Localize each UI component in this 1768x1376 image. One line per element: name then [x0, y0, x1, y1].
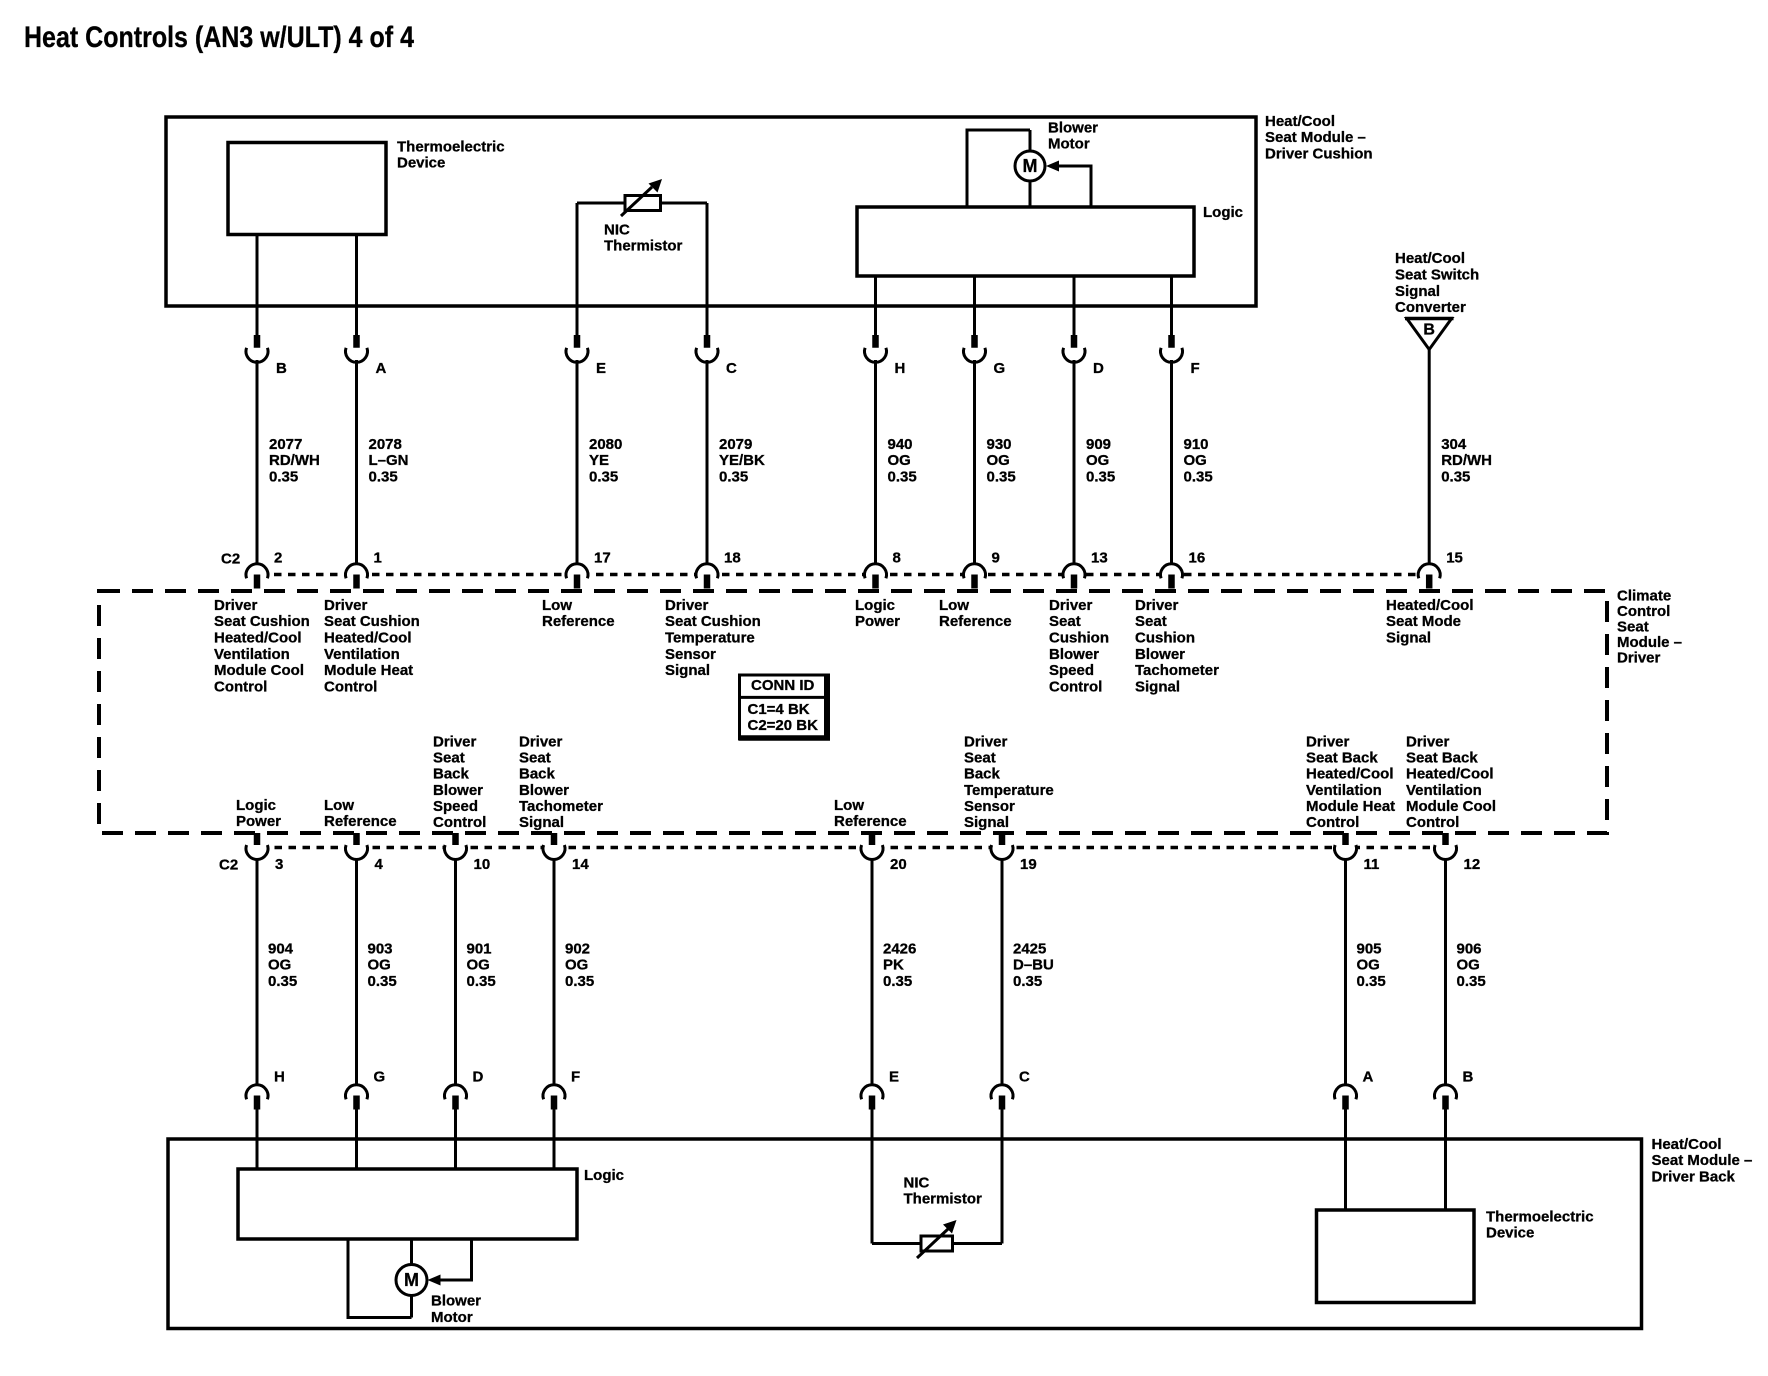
wire 2426 PK 0.35 — [871, 859, 874, 1086]
svg-text:Speed: Speed — [1049, 662, 1094, 679]
net label: Driver Seat Cushion Blower Speed Control — [1049, 597, 1109, 696]
svg-text:0.35: 0.35 — [1457, 973, 1486, 990]
svg-text:OG: OG — [467, 957, 490, 974]
net label: Driver Seat Back Temperature Sensor Signal — [964, 733, 1054, 831]
connector C2 cavity 8 (top row) — [865, 564, 887, 589]
net label: Driver Seat Back Blower Tachometer Signal — [519, 733, 603, 831]
svg-text:Thermistor: Thermistor — [904, 1191, 983, 1208]
svg-text:YE/BK: YE/BK — [719, 452, 765, 469]
svg-text:20: 20 — [890, 856, 907, 873]
wire 2080 YE 0.35 — [576, 360, 579, 565]
pin number 13 — [1091, 549, 1108, 566]
svg-text:C2=20 BK: C2=20 BK — [748, 717, 819, 734]
value label 940 OG 0.35 — [888, 436, 917, 486]
svg-text:0.35: 0.35 — [368, 973, 397, 990]
value label 304 RD/WH 0.35 — [1441, 436, 1492, 486]
svg-text:Temperature: Temperature — [964, 782, 1054, 799]
svg-text:0.35: 0.35 — [987, 469, 1016, 486]
wire TE1 pin B lead — [256, 234, 259, 336]
connector designator C2 (bottom row) — [219, 856, 238, 873]
svg-text:Low: Low — [939, 597, 969, 614]
connector C2 cavity 12 (bottom row) — [1435, 833, 1457, 859]
blower motor B1 symbol M — [1015, 151, 1045, 181]
module: Heat/Cool Seat Module - Driver Cushion (outline) — [166, 117, 1256, 306]
svg-text:OG: OG — [268, 957, 291, 974]
label: Climate Control Seat Module - Driver — [1617, 587, 1682, 666]
inline connector, pin C (driver back module) — [991, 1085, 1013, 1110]
connector C2 cavity 10 (bottom row) — [445, 833, 467, 859]
value label 930 OG 0.35 — [987, 436, 1016, 486]
svg-text:Control: Control — [214, 678, 267, 695]
svg-text:NIC: NIC — [604, 221, 630, 238]
svg-text:Heated/Cool: Heated/Cool — [1406, 766, 1494, 783]
svg-text:Control: Control — [433, 814, 486, 831]
svg-text:Blower: Blower — [519, 782, 569, 799]
svg-text:Heat/Cool: Heat/Cool — [1652, 1136, 1722, 1153]
svg-text:15: 15 — [1446, 549, 1463, 566]
pin number 4 — [375, 856, 384, 873]
inline connector, pin F (cushion module) — [1161, 335, 1183, 362]
svg-text:CONN ID: CONN ID — [751, 677, 815, 694]
svg-text:2426: 2426 — [883, 940, 916, 957]
net label: Low Reference — [324, 797, 397, 830]
svg-text:H: H — [895, 360, 906, 377]
svg-text:2079: 2079 — [719, 436, 752, 453]
connector C2 cavity 19 (bottom row) — [991, 833, 1013, 859]
svg-text:C: C — [1019, 1068, 1030, 1085]
connector C2 cavity 3 (bottom row) — [246, 833, 268, 859]
svg-text:Sensor: Sensor — [964, 798, 1015, 815]
svg-text:OG: OG — [1086, 452, 1109, 469]
svg-text:H: H — [274, 1068, 285, 1085]
svg-text:Control: Control — [1049, 678, 1102, 695]
svg-text:OG: OG — [888, 452, 911, 469]
svg-text:0.35: 0.35 — [719, 469, 748, 486]
net label: Low Reference — [939, 597, 1012, 630]
svg-text:RD/WH: RD/WH — [1441, 452, 1492, 469]
wire 2078 L–GN 0.35 — [355, 360, 358, 565]
svg-text:Temperature: Temperature — [665, 630, 755, 647]
wire pin G to logic U2 — [355, 1109, 358, 1170]
wire 2077 RD/WH 0.35 — [256, 360, 259, 565]
wire 909 OG 0.35 — [1073, 360, 1076, 565]
wire U1 pin H lead — [874, 276, 877, 336]
svg-text:14: 14 — [572, 856, 589, 873]
svg-text:Signal: Signal — [665, 662, 710, 679]
net label: Driver Seat Cushion Temperature Sensor Signal — [665, 597, 761, 679]
pin label G — [374, 1068, 386, 1085]
svg-text:B: B — [1423, 322, 1435, 339]
pin number 2 — [274, 549, 282, 566]
value label 901 OG 0.35 — [467, 940, 496, 990]
pin label D — [1093, 360, 1104, 377]
svg-text:Seat Module –: Seat Module – — [1265, 129, 1366, 146]
connector C2 cavity 9 (top row) — [964, 564, 986, 589]
pin label F — [571, 1068, 580, 1085]
svg-text:902: 902 — [565, 940, 590, 957]
svg-text:904: 904 — [268, 940, 294, 957]
pin label A — [1363, 1068, 1374, 1085]
svg-text:Seat Cushion: Seat Cushion — [665, 613, 761, 630]
svg-text:Thermistor: Thermistor — [604, 238, 683, 255]
svg-text:Signal: Signal — [964, 814, 1009, 831]
svg-text:Logic: Logic — [236, 797, 276, 814]
label: Logic (bottom) — [584, 1167, 624, 1184]
svg-text:11: 11 — [1364, 856, 1380, 873]
svg-text:Seat: Seat — [1049, 613, 1081, 630]
svg-text:Motor: Motor — [1048, 136, 1090, 153]
connector C2 cavity 2 (top row) — [246, 564, 268, 589]
svg-text:Logic: Logic — [584, 1167, 624, 1184]
module: Climate Control Seat Module - Driver (dashed outline) — [99, 591, 1607, 833]
pin label H — [274, 1068, 285, 1085]
connector C2 cavity 11 (bottom row) — [1335, 833, 1357, 859]
svg-text:Seat Back: Seat Back — [1306, 749, 1378, 766]
module: Heat/Cool Seat Module - Driver Back (outline) — [168, 1139, 1642, 1329]
svg-text:0.35: 0.35 — [1441, 469, 1470, 486]
svg-text:C: C — [726, 360, 737, 377]
svg-text:PK: PK — [883, 957, 904, 974]
svg-text:E: E — [889, 1068, 899, 1085]
NIC thermistor RT1 arrow — [621, 179, 662, 216]
svg-text:D: D — [473, 1068, 484, 1085]
svg-text:Seat: Seat — [964, 749, 996, 766]
CONN ID table — [739, 674, 830, 741]
svg-text:Driver: Driver — [433, 733, 477, 750]
inline connector, pin A (driver back module) — [1335, 1085, 1357, 1110]
NIC thermistor RT2 body — [921, 1236, 953, 1251]
wire 903 OG 0.35 — [355, 859, 358, 1086]
svg-text:903: 903 — [368, 940, 393, 957]
svg-text:Module –: Module – — [1617, 634, 1682, 651]
svg-text:Climate: Climate — [1617, 587, 1671, 604]
svg-text:Reference: Reference — [542, 613, 615, 630]
svg-text:Driver: Driver — [1135, 597, 1179, 614]
svg-text:Thermoelectric: Thermoelectric — [397, 138, 505, 155]
blower motor B2 circuit wires — [347, 1239, 474, 1318]
svg-text:Low: Low — [834, 797, 864, 814]
connector C2 cavity 15 (top row) — [1418, 564, 1440, 589]
pin label G — [994, 360, 1006, 377]
NIC thermistor RT2 arrow — [917, 1220, 957, 1258]
svg-text:Seat Back: Seat Back — [1406, 749, 1478, 766]
pin label B — [1463, 1068, 1474, 1085]
svg-text:B: B — [276, 360, 287, 377]
inline connector, pin C (cushion module) — [696, 335, 718, 362]
inline connector, pin H (driver back module) — [246, 1085, 268, 1110]
svg-text:2080: 2080 — [589, 436, 622, 453]
svg-text:Seat: Seat — [1135, 613, 1167, 630]
inline connector, pin E (cushion module) — [566, 335, 588, 362]
svg-text:RD/WH: RD/WH — [269, 452, 320, 469]
net label: Logic Power — [236, 797, 281, 830]
pin number 14 — [572, 856, 589, 873]
svg-text:Heat Controls (AN3 w/ULT) 4 of: Heat Controls (AN3 w/ULT) 4 of 4 — [24, 21, 414, 54]
svg-text:0.35: 0.35 — [888, 469, 917, 486]
net label: Driver Seat Cushion Blower Tachometer Signal — [1135, 597, 1219, 696]
svg-text:D–BU: D–BU — [1013, 957, 1054, 974]
pin number 3 — [275, 856, 283, 873]
net label: Driver Seat Cushion Heated/Cool Ventilation Module Heat Control — [324, 597, 420, 696]
connector face dotted line C2 (bottom row) — [247, 846, 1456, 850]
pin number 10 — [474, 856, 491, 873]
inline connector, pin G (cushion module) — [964, 335, 986, 362]
NIC thermistor RT1 body — [625, 196, 661, 211]
pin label E — [889, 1068, 899, 1085]
blower motor B1 (cushion) circuit wires — [966, 130, 1093, 207]
svg-text:906: 906 — [1457, 940, 1482, 957]
svg-text:OG: OG — [1457, 957, 1480, 974]
svg-text:Ventilation: Ventilation — [324, 646, 400, 663]
svg-text:Back: Back — [433, 766, 470, 783]
svg-text:10: 10 — [474, 856, 491, 873]
svg-text:OG: OG — [368, 957, 391, 974]
svg-text:Module Cool: Module Cool — [1406, 798, 1496, 815]
svg-text:9: 9 — [992, 549, 1000, 566]
svg-text:Heat/Cool: Heat/Cool — [1395, 250, 1465, 267]
svg-text:Reference: Reference — [939, 613, 1012, 630]
svg-text:Seat: Seat — [1617, 618, 1649, 635]
thermoelectric device TE2 (driver back) — [1317, 1210, 1475, 1303]
value label 905 OG 0.35 — [1357, 940, 1386, 990]
svg-text:Reference: Reference — [834, 813, 907, 830]
svg-text:0.35: 0.35 — [589, 469, 618, 486]
wire 901 OG 0.35 — [454, 859, 457, 1086]
pin number 17 — [594, 549, 611, 566]
svg-text:Blower: Blower — [433, 782, 483, 799]
label: Heat/Cool Seat Module - Driver Cushion — [1265, 113, 1373, 163]
inline connector, pin B (driver back module) — [1435, 1085, 1457, 1110]
inline connector, pin A (cushion module) — [346, 335, 368, 362]
value label 2077 RD/WH 0.35 — [269, 436, 320, 486]
converter symbol (triangle B) — [1405, 319, 1454, 350]
svg-text:910: 910 — [1184, 436, 1209, 453]
pin label A — [376, 360, 387, 377]
svg-text:Driver: Driver — [1406, 733, 1450, 750]
svg-text:Back: Back — [964, 766, 1001, 783]
net label: Driver Seat Cushion Heated/Cool Ventilation Module Cool Control — [214, 597, 310, 696]
svg-text:Driver: Driver — [214, 597, 258, 614]
svg-text:C2: C2 — [221, 550, 240, 567]
svg-text:Driver Back: Driver Back — [1652, 1169, 1736, 1186]
svg-text:901: 901 — [467, 940, 492, 957]
svg-text:Control: Control — [1306, 814, 1359, 831]
label: Thermoelectric Device (bottom) — [1486, 1208, 1594, 1241]
svg-text:B: B — [1463, 1068, 1474, 1085]
svg-text:Tachometer: Tachometer — [519, 798, 603, 815]
NIC thermistor RT2 loop wires — [872, 1109, 1002, 1244]
wire 902 OG 0.35 — [553, 859, 556, 1086]
inline connector, pin F (driver back module) — [543, 1085, 565, 1110]
pin number 18 — [724, 549, 741, 566]
net label: Low Reference — [834, 797, 907, 830]
net label: Low Reference — [542, 597, 615, 630]
value label 2426 PK 0.35 — [883, 940, 916, 990]
value label 903 OG 0.35 — [368, 940, 397, 990]
svg-text:Low: Low — [324, 797, 354, 814]
svg-text:12: 12 — [1464, 856, 1481, 873]
svg-text:Blower: Blower — [431, 1293, 481, 1310]
inline connector, pin H (cushion module) — [865, 335, 887, 362]
svg-text:Ventilation: Ventilation — [1306, 782, 1382, 799]
pin label C — [1019, 1068, 1030, 1085]
NIC thermistor RT1 loop wires — [577, 203, 707, 336]
svg-text:13: 13 — [1091, 549, 1108, 566]
blower motor B2 arrow into motor — [428, 1275, 441, 1286]
connector C2 cavity 18 (top row) — [696, 564, 718, 589]
svg-text:OG: OG — [565, 957, 588, 974]
inline connector, pin E (driver back module) — [861, 1085, 883, 1110]
value label 906 OG 0.35 — [1457, 940, 1486, 990]
svg-text:OG: OG — [1184, 452, 1207, 469]
svg-text:C1=4 BK: C1=4 BK — [748, 701, 810, 718]
wire 2079 YE/BK 0.35 — [706, 360, 709, 565]
wire 905 OG 0.35 — [1344, 859, 1347, 1086]
svg-text:Driver: Driver — [519, 733, 563, 750]
net label: Logic Power — [855, 597, 900, 630]
value label 910 OG 0.35 — [1184, 436, 1213, 486]
pin number 16 — [1189, 549, 1206, 566]
svg-text:Signal: Signal — [1386, 630, 1431, 647]
value label 2078 L–GN 0.35 — [369, 436, 409, 486]
svg-text:2078: 2078 — [369, 436, 402, 453]
logic block U1 (cushion module) — [857, 207, 1194, 276]
value label 2080 YE 0.35 — [589, 436, 622, 486]
svg-text:Signal: Signal — [1135, 678, 1180, 695]
wire U1 pin D lead — [1073, 276, 1076, 336]
svg-text:Signal: Signal — [1395, 283, 1440, 300]
wire 940 OG 0.35 — [874, 360, 877, 565]
svg-text:Module Heat: Module Heat — [324, 662, 413, 679]
svg-text:Device: Device — [397, 155, 445, 172]
svg-text:OG: OG — [1357, 957, 1380, 974]
svg-text:0.35: 0.35 — [565, 973, 594, 990]
svg-text:Blower: Blower — [1048, 119, 1098, 136]
svg-text:Power: Power — [236, 813, 281, 830]
svg-text:C2: C2 — [219, 856, 238, 873]
svg-text:Heated/Cool: Heated/Cool — [1306, 766, 1394, 783]
wire pin A to TE2 — [1344, 1109, 1347, 1211]
pin number 15 — [1446, 549, 1463, 566]
wire U1 pin F lead — [1170, 276, 1173, 336]
connector C2 cavity 16 (top row) — [1161, 564, 1183, 589]
wire 2425 D–BU 0.35 — [1001, 859, 1004, 1086]
logic block U2 (driver back module) — [238, 1169, 577, 1239]
svg-text:Driver: Driver — [1049, 597, 1093, 614]
svg-text:0.35: 0.35 — [883, 973, 912, 990]
svg-text:Cushion: Cushion — [1135, 630, 1195, 647]
pin label D — [473, 1068, 484, 1085]
svg-text:Seat: Seat — [519, 749, 551, 766]
svg-text:Ventilation: Ventilation — [214, 646, 290, 663]
pin label B — [276, 360, 287, 377]
label: Thermoelectric Device (top) — [397, 138, 505, 171]
blower motor B2 symbol M — [396, 1265, 427, 1296]
svg-text:2425: 2425 — [1013, 940, 1046, 957]
svg-text:NIC: NIC — [904, 1174, 930, 1191]
net label: Driver Seat Back Blower Speed Control — [433, 733, 486, 831]
thermoelectric device TE1 (driver cushion) — [228, 143, 386, 235]
blower motor B1 arrow into motor — [1046, 161, 1059, 172]
svg-text:Driver: Driver — [1306, 733, 1350, 750]
pin number 1 — [374, 549, 382, 566]
svg-text:Tachometer: Tachometer — [1135, 662, 1219, 679]
wire 930 OG 0.35 — [973, 360, 976, 565]
svg-text:Seat Mode: Seat Mode — [1386, 613, 1461, 630]
svg-text:Device: Device — [1486, 1225, 1534, 1242]
svg-text:0.35: 0.35 — [1357, 973, 1386, 990]
connector designator C2 (top row) — [221, 550, 240, 567]
svg-text:Seat Module –: Seat Module – — [1652, 1152, 1753, 1169]
svg-text:Blower: Blower — [1049, 646, 1099, 663]
pin label F — [1191, 360, 1200, 377]
svg-text:F: F — [571, 1068, 580, 1085]
svg-text:Control: Control — [1406, 814, 1459, 831]
svg-text:Back: Back — [519, 766, 556, 783]
inline connector, pin G (driver back module) — [346, 1085, 368, 1110]
svg-text:Module Heat: Module Heat — [1306, 798, 1395, 815]
connector C2 cavity 17 (top row) — [566, 564, 588, 589]
svg-text:2077: 2077 — [269, 436, 302, 453]
svg-text:D: D — [1093, 360, 1104, 377]
svg-text:905: 905 — [1357, 940, 1382, 957]
title: Heat Controls (AN3 w/ULT) 4 of 4 — [24, 21, 414, 54]
wire pin H to logic U2 — [256, 1109, 259, 1170]
svg-text:Low: Low — [542, 597, 572, 614]
wire U1 pin G lead — [973, 276, 976, 336]
net label: Driver Seat Back Heated/Cool Ventilation Module Cool Control — [1406, 733, 1496, 831]
svg-text:Heated/Cool: Heated/Cool — [1386, 597, 1474, 614]
value label 904 OG 0.35 — [268, 940, 297, 990]
svg-text:930: 930 — [987, 436, 1012, 453]
svg-text:0.35: 0.35 — [1086, 469, 1115, 486]
svg-text:0.35: 0.35 — [269, 469, 298, 486]
inline connector, pin B (cushion module) — [246, 335, 268, 362]
svg-text:Thermoelectric: Thermoelectric — [1486, 1208, 1594, 1225]
svg-text:G: G — [994, 360, 1006, 377]
svg-text:Signal: Signal — [519, 814, 564, 831]
svg-text:YE: YE — [589, 452, 609, 469]
svg-text:Control: Control — [1617, 603, 1670, 620]
svg-text:Heated/Cool: Heated/Cool — [214, 630, 302, 647]
pin number 8 — [893, 549, 901, 566]
value label 902 OG 0.35 — [565, 940, 594, 990]
svg-text:Control: Control — [324, 678, 377, 695]
svg-text:Blower: Blower — [1135, 646, 1185, 663]
value label 909 OG 0.35 — [1086, 436, 1115, 486]
svg-text:Sensor: Sensor — [665, 646, 716, 663]
pin number 9 — [992, 549, 1000, 566]
wire TE1 pin A lead — [355, 234, 358, 336]
svg-text:909: 909 — [1086, 436, 1111, 453]
label: Blower Motor (bottom) — [431, 1293, 481, 1326]
connector C2 cavity 14 (bottom row) — [543, 833, 565, 859]
svg-text:Power: Power — [855, 613, 900, 630]
value label 2425 D–BU 0.35 — [1013, 940, 1054, 990]
pin label E — [596, 360, 606, 377]
svg-text:Driver Cushion: Driver Cushion — [1265, 145, 1373, 162]
svg-text:0.35: 0.35 — [467, 973, 496, 990]
wire 910 OG 0.35 — [1170, 360, 1173, 565]
connector face dotted line C2 (top row) — [246, 573, 1440, 577]
svg-text:3: 3 — [275, 856, 283, 873]
connector C2 cavity 1 (top row) — [346, 564, 368, 589]
pin number 11 — [1364, 856, 1380, 873]
pin label H — [895, 360, 906, 377]
svg-text:Driver: Driver — [324, 597, 368, 614]
svg-text:8: 8 — [893, 549, 901, 566]
inline connector, pin D (driver back module) — [445, 1085, 467, 1110]
